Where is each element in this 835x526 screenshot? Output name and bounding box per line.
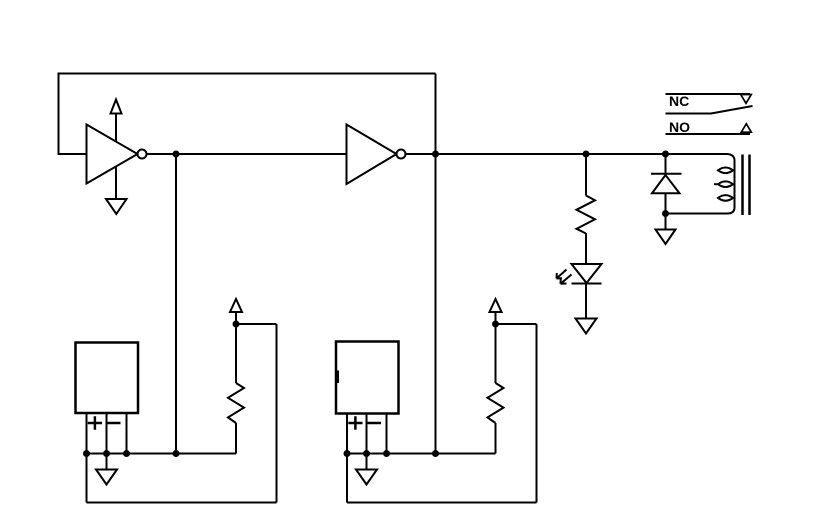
minus label S2: [367, 422, 382, 425]
block S2 pin 1 (+): [346, 414, 348, 503]
minus label S1: [106, 422, 121, 425]
resistor R1 pull-up: [228, 383, 244, 423]
wire inverter U1 input: [58, 153, 87, 155]
relay K1 core line 1: [741, 155, 744, 216]
wire feedback right vertical: [435, 74, 437, 454]
junction S2 pin1: [344, 450, 351, 457]
wire LED to ground: [585, 284, 587, 318]
relay K1 coil loop 2 tick: [714, 183, 719, 185]
wire U1 ground pin: [115, 167, 117, 199]
relay K1 core line 2: [748, 155, 751, 216]
wire R2 bottom: [495, 423, 497, 454]
relay NC contact arrow: [741, 95, 752, 104]
wire S1 loop bottom: [87, 502, 277, 504]
junction node A: [173, 151, 180, 158]
wire U1 power pin: [115, 114, 117, 142]
relay NO contact line: [666, 133, 751, 135]
wire S2 loop bottom: [347, 502, 537, 504]
junction feedback bottom: [432, 450, 439, 457]
resistor R2 pull-up: [488, 383, 504, 423]
wire U1 output to U2 input: [147, 153, 347, 155]
relay K1 coil loop 3: [718, 195, 733, 201]
wire S2 loop top: [496, 323, 537, 325]
LED D2 light arrow 2: [561, 275, 572, 284]
wire S1 bottom rail: [87, 453, 237, 455]
wire feedback top horizontal: [59, 73, 436, 75]
block S2 left-edge tick: [337, 371, 339, 384]
resistor R3 (LED series): [577, 196, 596, 234]
wire R1 bottom: [235, 423, 237, 454]
junction LED branch: [583, 151, 590, 158]
junction S2 pin3: [383, 450, 390, 457]
junction R1 top: [233, 321, 240, 328]
block S1 (sensor module): [76, 343, 139, 414]
junction feedback/output: [432, 151, 439, 158]
LED D2 triangle: [572, 264, 602, 283]
wire S2 loop right vertical: [536, 324, 538, 503]
power arrow R2: [490, 299, 502, 312]
relay armature (common): [666, 106, 753, 114]
wire diode to bottom junction: [665, 193, 667, 213]
wire R3 to LED: [585, 233, 587, 264]
wire diode branch top: [665, 154, 667, 174]
relay K1 coil loop 2: [718, 181, 733, 187]
block S2 pin 2 (-): [366, 414, 368, 470]
plus label S2: [348, 416, 362, 430]
LED D2 light arrow 1: [557, 270, 567, 279]
inverter U1 output bubble: [138, 150, 147, 159]
junction S1 pin1: [83, 450, 90, 457]
wire node A vertical drop: [175, 154, 177, 454]
junction S1 pin2: [103, 450, 110, 457]
relay K1 coil loop 1: [718, 168, 733, 174]
relay K1 coil outline: [666, 154, 735, 214]
wire LED branch from main wire: [585, 154, 587, 196]
block S1 pin 1 (+): [86, 413, 88, 503]
inverter U1: [87, 125, 138, 184]
wire S2 power pin: [495, 312, 497, 324]
power arrow R1: [230, 299, 242, 312]
junction diode top: [662, 151, 669, 158]
diode D1 cathode bar: [651, 173, 682, 175]
ground U1: [106, 199, 127, 214]
block S1 pin 2 (-): [106, 413, 108, 469]
junction S2 pin2: [363, 450, 370, 457]
block S1 pin 3 (out): [126, 413, 128, 454]
ground diode: [656, 230, 676, 245]
junction S1 pin3: [123, 450, 130, 457]
junction R2 top: [492, 321, 499, 328]
block S2 pin 3 (out): [386, 414, 388, 454]
power arrow U1: [111, 100, 122, 114]
junction diode bottom: [662, 210, 669, 217]
wire S1 power pin: [235, 312, 237, 324]
wire S1 loop top: [236, 323, 277, 325]
plus label S1: [88, 416, 102, 430]
ground S1: [96, 470, 117, 485]
wire R1 top: [235, 324, 237, 383]
diode D1 triangle: [652, 175, 680, 193]
svg-text:NO: NO: [669, 119, 690, 135]
relay NC contact line: [666, 93, 751, 95]
ground S2: [356, 470, 377, 485]
wire main output U2 to relay: [406, 153, 727, 155]
inverter U2: [347, 125, 397, 185]
wire R2 top: [495, 324, 497, 383]
block S2 (sensor module): [336, 342, 399, 414]
wire S1 loop right vertical: [276, 324, 278, 503]
wire feedback left vertical: [58, 73, 60, 155]
relay NO contact arrow: [741, 124, 751, 132]
svg-text:NC: NC: [669, 93, 689, 109]
junction node A bottom: [173, 450, 180, 457]
ground LED: [576, 319, 597, 334]
LED D2 cathode bar: [572, 283, 602, 285]
inverter U2 output bubble: [397, 150, 406, 159]
wire S2 bottom rail: [347, 453, 496, 455]
wire diode junction to ground: [665, 214, 667, 230]
